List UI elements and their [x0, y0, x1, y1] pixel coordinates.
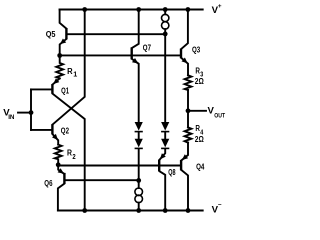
arrow Q8 emitter (PNP inward) — [160, 153, 166, 159]
arrow Q4 emitter (PNP inward) — [182, 154, 188, 160]
svg-text:2Ω: 2Ω — [195, 76, 204, 86]
wire VOUT tap — [188, 110, 206, 112]
transistor Q2 bar — [51, 124, 53, 134]
wire Q7 emitter to diode column — [132, 59, 138, 122]
svg-text:IN: IN — [8, 114, 15, 121]
emitter arrows — [52, 39, 188, 174]
wire Q6 base to diode node — [65, 179, 139, 181]
wire Q2 emitter to R2 — [53, 134, 58, 144]
svg-text:Q5: Q5 — [46, 29, 56, 39]
wire R3 to VOUT node — [187, 90, 189, 111]
node bottom rail / Q8 collector — [163, 208, 168, 213]
transistor bars — [52, 28, 181, 184]
diode D4 — [161, 139, 169, 148]
current sources — [135, 14, 169, 202]
arrow Q2 emitter (NPN outward) — [52, 134, 58, 140]
svg-text:−: − — [218, 202, 222, 209]
arrow Q1 emitter (PNP inward) — [53, 78, 59, 84]
wire L3: R2 node to Q8/Q4 bases — [58, 165, 180, 167]
svg-text:Q7: Q7 — [143, 42, 151, 52]
current source top (two circles) — [162, 14, 169, 21]
svg-text:Q2: Q2 — [61, 126, 69, 136]
wire R4 to Q4 emitter — [182, 143, 189, 161]
resistor R3 2ohm — [185, 75, 192, 90]
resistor R1 — [56, 56, 63, 79]
wire Q8 collector to bottom rail — [160, 171, 166, 210]
svg-text:Q3: Q3 — [192, 44, 200, 54]
diodes — [135, 122, 170, 148]
node top rail / Q3 collector — [186, 7, 191, 12]
wire D2 to bias node — [138, 149, 140, 180]
wire between diodes D1 D2 — [138, 132, 140, 139]
wire top current source stub — [164, 10, 166, 15]
svg-text:Q1: Q1 — [61, 86, 69, 96]
svg-text:1: 1 — [73, 69, 77, 78]
wire VOUT to R4 — [187, 111, 189, 128]
transistor Q7 bar — [130, 47, 132, 59]
wire Q6 emitter from node — [58, 165, 64, 174]
transistor Q8 bar — [158, 160, 160, 172]
transistor Q5 bar — [65, 28, 67, 39]
wire bias node to current source — [138, 180, 140, 188]
transistor Q1 bar — [51, 84, 53, 94]
wire Q4 collector to bottom rail — [182, 170, 189, 210]
wire D4 to Q8 emitter — [160, 149, 166, 160]
wire Q3 emitter to R3 — [181, 58, 188, 75]
wire Q1 base — [31, 88, 52, 90]
node bottom rail / Q1 collector — [82, 208, 87, 213]
wire Q3 collector to top rail — [181, 10, 188, 49]
wire Q2 base — [31, 129, 52, 131]
wire top rail V+ — [60, 9, 203, 11]
wire L1: Q5 base to current source bottom — [67, 33, 165, 35]
node R2 bottom / Q6 emitter / L3 — [56, 162, 61, 167]
node top rail / Q7 collector — [136, 7, 141, 12]
wire Q1 collector to lower vertical — [53, 94, 85, 211]
arrow Q6 emitter (PNP inward) — [58, 168, 64, 174]
svg-text:Q6: Q6 — [44, 178, 52, 188]
wire R1 to Q1 emitter — [53, 78, 60, 84]
wire L2: node to Q7/Q3 bases — [60, 54, 180, 56]
node bottom rail / Q4 collector — [186, 208, 191, 213]
wire current source to bottom rail — [138, 203, 140, 211]
svg-text:2Ω: 2Ω — [195, 134, 204, 144]
transistor Q6 bar — [63, 173, 65, 184]
wire current source to L1 node — [164, 29, 166, 34]
wire Q2 collector to upper vertical — [53, 10, 85, 125]
wire Q6 collector to bottom rail — [58, 184, 65, 211]
arrow Q3 emitter (NPN outward) — [182, 58, 188, 64]
wire Q7 collector to top rail — [132, 10, 138, 48]
resistor R4 2ohm — [185, 127, 192, 142]
svg-text:OUT: OUT — [214, 113, 225, 120]
wire Q5 emitter down to node — [60, 39, 67, 56]
node current source / L1 / diode column — [163, 32, 168, 37]
resistor R2 — [55, 145, 62, 165]
diode D2 — [135, 139, 143, 148]
transistor Q3 bar — [180, 49, 182, 59]
transistor Q4 bar — [180, 160, 182, 170]
node diode column / Q6 base / current source — [136, 178, 141, 183]
svg-text:+: + — [218, 3, 222, 10]
svg-text:2: 2 — [72, 152, 75, 161]
diode D3 — [161, 122, 169, 131]
arrow Q5 emitter (NPN outward) — [60, 39, 66, 45]
diode D1 — [135, 122, 143, 131]
current source bottom (two circles) — [135, 188, 143, 196]
node VOUT — [186, 108, 191, 113]
wire bottom rail V- — [58, 210, 203, 212]
wire right diode column top — [164, 34, 166, 122]
wire VIN input — [18, 112, 31, 114]
node top rail / Q2 collector — [82, 7, 87, 12]
arrow Q7 emitter (NPN outward) — [132, 58, 138, 64]
wire Q5 collector to top rail — [60, 10, 67, 29]
svg-text:Q4: Q4 — [196, 161, 204, 171]
svg-text:Q8: Q8 — [168, 167, 175, 177]
node bottom rail / current source — [136, 208, 141, 213]
node Q5 emitter / R1 / L2 — [57, 53, 62, 58]
node VIN — [29, 110, 34, 115]
wire between diodes D3 D4 — [164, 132, 166, 139]
node top rail / current source — [163, 7, 168, 12]
wire VIN vertical to Q1/Q2 bases — [30, 89, 32, 129]
